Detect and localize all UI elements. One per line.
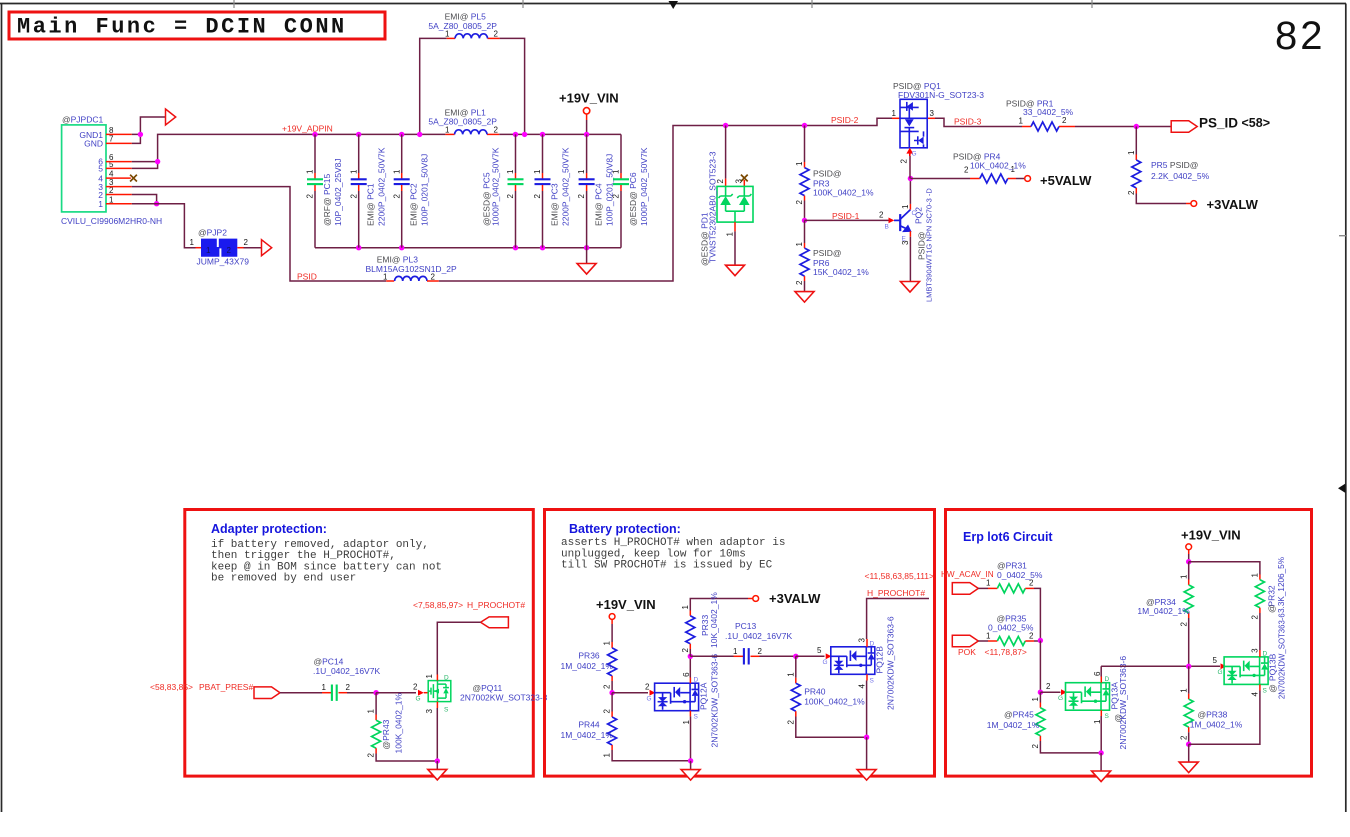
svg-text:S: S [1105, 713, 1110, 720]
inductor PL3 pin2 stub [427, 280, 439, 282]
svg-text:PS_ID: PS_ID [1199, 116, 1238, 131]
svg-text:+19V_ADPIN: +19V_ADPIN [282, 123, 333, 133]
junction dots on +19V rail [312, 132, 317, 137]
junction PC14/PR43 [373, 690, 378, 695]
svg-text:3: 3 [930, 109, 935, 118]
svg-text:2: 2 [577, 194, 586, 199]
svg-text:1: 1 [322, 683, 327, 692]
svg-text:asserts H_PROCHOT# when adapto: asserts H_PROCHOT# when adaptor is [561, 537, 785, 549]
svg-text:1: 1 [1019, 117, 1024, 126]
resistor PR32 [1251, 557, 1287, 650]
ground under filter caps [586, 248, 588, 263]
svg-text:H_PROCHOT#: H_PROCHOT# [467, 600, 525, 610]
svg-text:G: G [1218, 669, 1223, 676]
svg-text:1: 1 [682, 720, 691, 725]
svg-text:PC13: PC13 [735, 621, 757, 631]
svg-text:1: 1 [1093, 719, 1102, 724]
ground under PQ12B [866, 737, 868, 769]
svg-text:EMI@ PC4: EMI@ PC4 [594, 183, 604, 226]
svg-text:PQ12B: PQ12B [875, 646, 885, 674]
resistor PR4 [910, 151, 1030, 183]
resistor PR35 [978, 613, 1040, 645]
connector pin names [79, 130, 103, 209]
svg-text:2: 2 [795, 280, 804, 285]
svg-text:3: 3 [1251, 648, 1260, 653]
svg-text:if battery removed, adaptor on: if battery removed, adaptor only, [211, 539, 429, 551]
svg-text:POK: POK [958, 647, 976, 657]
junction POK/PR31 [1038, 638, 1043, 643]
off-page arrow jumper [262, 240, 272, 256]
svg-text:@PR43: @PR43 [381, 719, 391, 749]
border zone marker arrow right [1338, 484, 1346, 494]
resistor PR44 [561, 693, 691, 761]
resistor PR1 [1006, 98, 1075, 131]
sheet top border [0, 3, 1346, 5]
svg-text:2.2K_0402_5%: 2.2K_0402_5% [1151, 171, 1210, 181]
inductor PL5 [455, 34, 487, 39]
svg-text:G: G [823, 659, 828, 666]
svg-text:2: 2 [900, 159, 909, 164]
wire PR1 to PS_ID port [1075, 126, 1171, 128]
svg-text:PQ2: PQ2 [914, 207, 924, 224]
resistor PR45 [987, 692, 1101, 753]
wire PL3 to PSID-2 riser [439, 118, 892, 281]
svg-text:PR36: PR36 [578, 651, 600, 661]
svg-text:@PR31: @PR31 [997, 561, 1027, 571]
port PS_ID [1171, 121, 1197, 133]
svg-text:Erp lot6 Circuit: Erp lot6 Circuit [963, 530, 1053, 544]
no-connect X on pin 4 [130, 175, 137, 182]
svg-text:2: 2 [227, 246, 232, 255]
svg-text:0_0402_5%: 0_0402_5% [988, 623, 1034, 633]
wire pins 7,8 to off-page arrow [132, 117, 166, 143]
svg-text:<11,78,87>: <11,78,87> [985, 647, 1027, 657]
svg-text:10K_0402_1%: 10K_0402_1% [970, 160, 1026, 170]
title box [9, 12, 385, 39]
junction dots on bottom rail [356, 245, 361, 250]
resistor PR34 [1137, 562, 1193, 667]
capacitor PC2 [392, 134, 429, 247]
capacitor PC3 [533, 134, 570, 247]
svg-text:100K_0402_1%: 100K_0402_1% [394, 693, 404, 754]
svg-text:1: 1 [392, 169, 401, 174]
svg-text:be removed by end user: be removed by end user [211, 573, 356, 585]
svg-text:6: 6 [682, 672, 691, 677]
capacitor PC5 [482, 134, 524, 247]
svg-text:PQ12A: PQ12A [699, 682, 709, 710]
svg-text:2N7002KDW_SOT363-6: 2N7002KDW_SOT363-6 [1278, 613, 1287, 699]
svg-text:2: 2 [1179, 622, 1188, 627]
junction pin6 [155, 159, 160, 164]
svg-text:1: 1 [901, 204, 910, 209]
svg-text:2200P_0402_50V7K: 2200P_0402_50V7K [377, 147, 387, 226]
inductor PL1 [455, 130, 487, 135]
wire jumper to off-page arrow [244, 247, 262, 249]
svg-text:2: 2 [1046, 682, 1051, 691]
svg-text:1: 1 [577, 169, 586, 174]
svg-text:PR5 PSID@: PR5 PSID@ [1151, 160, 1198, 170]
resistor PR33 [681, 592, 759, 657]
svg-text:3: 3 [425, 709, 434, 714]
svg-text:2N7002KW_SOT323-3: 2N7002KW_SOT323-3 [460, 692, 548, 702]
note text battery [561, 537, 785, 572]
note text adapter [211, 539, 442, 585]
svg-text:1: 1 [1127, 150, 1136, 155]
jumper PJP2 pin1 stub [196, 247, 202, 249]
port HW_ACAV_IN [952, 583, 978, 595]
svg-text:1: 1 [986, 579, 991, 588]
svg-text:1: 1 [206, 246, 211, 255]
wire PQ12A drain to PC13 [690, 655, 733, 657]
svg-text:1M_0402_1%: 1M_0402_1% [561, 661, 614, 671]
svg-text:.1U_0402_16V7K: .1U_0402_16V7K [725, 631, 792, 641]
svg-text:5A_Z80_0805_2P: 5A_Z80_0805_2P [428, 117, 497, 127]
svg-text:S: S [870, 677, 875, 684]
border zone ticks top [233, 0, 235, 8]
svg-text:PSID@: PSID@ [813, 169, 841, 179]
svg-text:S: S [694, 714, 699, 721]
junction PR34/PQ13B gate wire [1186, 664, 1191, 669]
red frame box Battery protection [545, 510, 935, 777]
junction PC13/PR40 [793, 654, 798, 659]
junction PQ11 source / PR43 [435, 758, 440, 763]
svg-text:@ESD@ PC6: @ESD@ PC6 [628, 172, 638, 226]
port H_PROCHOT# (box1) [481, 617, 509, 628]
svg-text:PQ13B: PQ13B [1268, 653, 1278, 681]
inductor PL1 pin stubs [445, 133, 454, 135]
resistor PR31 [978, 561, 1043, 641]
svg-text:3: 3 [857, 638, 866, 643]
svg-text:2N7002KDW_SOT363-6: 2N7002KDW_SOT363-6 [710, 654, 720, 748]
svg-text:1: 1 [1031, 697, 1040, 702]
svg-text:TVNST52302AB0_SOT523-3: TVNST52302AB0_SOT523-3 [707, 151, 717, 263]
svg-text:1: 1 [1251, 573, 1260, 578]
MOSFET PQ1 [892, 81, 985, 179]
svg-text:E: E [902, 236, 907, 243]
wire to PQ12B gate [796, 655, 825, 657]
red frame box Adapter protection [185, 510, 534, 777]
svg-text:PR40: PR40 [804, 686, 826, 696]
svg-text:unplugged, keep low for 10ms: unplugged, keep low for 10ms [561, 548, 746, 560]
svg-text:then trigger the H_PROCHOT#,: then trigger the H_PROCHOT#, [211, 550, 396, 562]
svg-text:2200P_0402_50V7K: 2200P_0402_50V7K [561, 147, 571, 226]
capacitor PC13 [725, 621, 796, 665]
capacitor PC4 [577, 134, 614, 247]
TVS diode PD1 [700, 126, 754, 276]
svg-text:2: 2 [716, 179, 725, 184]
svg-text:3.3K_1206_5%: 3.3K_1206_5% [1277, 557, 1286, 613]
junction PR3 tap [802, 123, 807, 128]
svg-text:PBAT_PRES#: PBAT_PRES# [199, 682, 253, 692]
svg-text:D: D [444, 675, 449, 682]
svg-text:2: 2 [964, 166, 969, 175]
svg-text:D: D [694, 677, 699, 684]
svg-text:GND: GND [84, 139, 103, 149]
svg-text:@PR38: @PR38 [1198, 710, 1228, 720]
svg-text:S: S [444, 707, 449, 714]
svg-text:Main Func = DCIN CONN: Main Func = DCIN CONN [17, 15, 347, 40]
svg-text:2: 2 [392, 194, 401, 199]
svg-text:.1U_0402_16V7K: .1U_0402_16V7K [313, 666, 380, 676]
svg-text:2: 2 [1062, 116, 1067, 125]
junction PQ12A drain node [688, 654, 693, 659]
svg-text:1M_0402_1%: 1M_0402_1% [987, 720, 1040, 730]
transistor PQ2 [879, 179, 934, 303]
svg-text:1: 1 [892, 109, 897, 118]
svg-text:G: G [912, 151, 917, 158]
svg-text:@: @ [1267, 604, 1277, 613]
svg-text:D: D [1105, 676, 1110, 683]
wire PQ13A drain to PQ13B gate [1101, 665, 1220, 667]
svg-text:@PJPDC1: @PJPDC1 [62, 115, 104, 125]
capacitor PC6 [612, 134, 649, 247]
border zone marker arrow top [669, 1, 679, 9]
dual MOSFET PQ13B [1189, 613, 1287, 744]
svg-text:1: 1 [190, 238, 195, 247]
junction PR36/PR44 gate node [609, 690, 614, 695]
svg-text:EMI@ PC3: EMI@ PC3 [550, 183, 560, 226]
junction gate node PQ13A [1038, 690, 1043, 695]
svg-text:<11,58,63,85,111>: <11,58,63,85,111> [865, 571, 935, 581]
svg-text:10K_0402_1%: 10K_0402_1% [709, 592, 719, 648]
svg-text:1: 1 [349, 169, 358, 174]
svg-text:1: 1 [445, 30, 450, 39]
svg-text:Battery protection:: Battery protection: [569, 522, 681, 536]
resistor PR40 [786, 656, 866, 737]
svg-text:1: 1 [726, 232, 735, 237]
svg-text:EMI@ PC1: EMI@ PC1 [366, 183, 376, 226]
svg-text:+19V_VIN: +19V_VIN [559, 90, 619, 105]
svg-text:@PR45: @PR45 [1004, 710, 1034, 720]
svg-text:FDV301N-G_SOT23-3: FDV301N-G_SOT23-3 [898, 90, 984, 100]
svg-text:2: 2 [612, 194, 621, 199]
svg-text:6: 6 [1093, 671, 1102, 676]
ground under PQ12A [690, 761, 692, 769]
svg-text:2: 2 [431, 272, 436, 281]
svg-text:2: 2 [349, 194, 358, 199]
svg-text:PSID@: PSID@ [813, 248, 841, 258]
svg-text:2: 2 [879, 211, 884, 220]
capacitor PC14 [313, 657, 380, 701]
svg-text:1: 1 [681, 605, 690, 610]
svg-text:PSID: PSID [297, 272, 317, 282]
svg-text:2: 2 [533, 194, 542, 199]
dual MOSFET PQ12B [831, 616, 896, 737]
svg-text:1: 1 [786, 672, 795, 677]
port POK [952, 635, 978, 647]
resistor PR43 [367, 693, 438, 761]
inductor PL3 pin1 stub [386, 280, 394, 282]
svg-text:2: 2 [244, 238, 249, 247]
svg-text:PSID-1: PSID-1 [832, 211, 860, 221]
power symbol +19V_VIN [583, 108, 589, 114]
svg-text:1000P_0402_50V7K: 1000P_0402_50V7K [491, 147, 501, 226]
wire PSID-3 [935, 118, 1022, 126]
svg-text:1: 1 [795, 161, 804, 166]
inductor PL5 pin stubs [447, 37, 455, 39]
wire to PQ13A gate [1040, 691, 1060, 693]
svg-text:1: 1 [367, 709, 376, 714]
svg-text:1: 1 [383, 272, 388, 281]
svg-text:PR32: PR32 [1267, 585, 1277, 607]
svg-text:1M_0402_1%: 1M_0402_1% [1190, 720, 1243, 730]
svg-text:1: 1 [98, 199, 103, 209]
svg-text:100K_0402_1%: 100K_0402_1% [804, 696, 865, 706]
svg-text:+3VALW: +3VALW [1207, 197, 1259, 212]
svg-text:1: 1 [733, 647, 738, 656]
svg-text:1M_0402_1%: 1M_0402_1% [561, 730, 614, 740]
svg-text:100P_0201_50V8J: 100P_0201_50V8J [605, 154, 615, 226]
svg-text:2: 2 [1251, 615, 1260, 620]
off-page arrow top [166, 109, 176, 125]
wire down to gate node [1039, 641, 1041, 693]
svg-text:1: 1 [445, 126, 450, 135]
svg-text:G: G [1058, 695, 1063, 702]
svg-text:+19V_VIN: +19V_VIN [1181, 528, 1241, 543]
svg-text:JUMP_43X79: JUMP_43X79 [197, 257, 250, 267]
red frame box Erp lot6 Circuit [946, 510, 1312, 777]
svg-text:2: 2 [346, 683, 351, 692]
svg-text:2: 2 [645, 683, 650, 692]
sheet right border [1345, 4, 1347, 813]
connector PJPDC1 body [62, 125, 106, 212]
svg-text:5: 5 [817, 646, 822, 655]
junction PR5 tap [1134, 124, 1139, 129]
junction PQ12A source/PR44 [688, 758, 693, 763]
+19V ADPIN rail right of PL1 [499, 133, 621, 135]
junction PQ1 source node [908, 176, 913, 181]
dual MOSFET PQ13A [1066, 656, 1129, 753]
sheet left border [1, 4, 3, 813]
svg-text:3: 3 [735, 179, 744, 184]
junction +19V (box3) [1186, 559, 1191, 564]
svg-text:2: 2 [367, 753, 376, 758]
wire PSID-1 to PQ2 base [805, 219, 889, 221]
svg-text:1: 1 [506, 169, 515, 174]
svg-text:10P_0402_25V8J: 10P_0402_25V8J [333, 158, 343, 226]
svg-text:2: 2 [306, 194, 315, 199]
svg-text:PSID-2: PSID-2 [831, 115, 859, 125]
svg-text:1000P_0402_50V7K: 1000P_0402_50V7K [639, 147, 649, 226]
svg-text:2: 2 [1031, 744, 1040, 749]
svg-text:H_PROCHOT#: H_PROCHOT# [867, 588, 925, 598]
svg-text:2N7002KDW_SOT363-6: 2N7002KDW_SOT363-6 [886, 616, 896, 710]
svg-text:till SW PROCHOT# is issued by: till SW PROCHOT# is issued by EC [561, 560, 773, 572]
svg-text:CVILU_CI9906M2HR0-NH: CVILU_CI9906M2HR0-NH [61, 216, 162, 226]
svg-text:EMI@ PC2: EMI@ PC2 [409, 183, 419, 226]
junction PQ13A source/PR45 [1098, 750, 1103, 755]
svg-text:1: 1 [533, 169, 542, 174]
svg-text:<58,83,85>: <58,83,85> [150, 682, 193, 692]
svg-text:BLM15AG102SN1D_2P: BLM15AG102SN1D_2P [366, 264, 458, 274]
svg-text:0_0402_5%: 0_0402_5% [997, 570, 1043, 580]
svg-text:+19V_VIN: +19V_VIN [596, 597, 656, 612]
svg-text:1: 1 [1179, 574, 1188, 579]
svg-text:2: 2 [603, 684, 612, 689]
MOSFET PQ11 [413, 674, 548, 762]
wire pin1 to jumper PJP2 [132, 204, 196, 248]
jumper pin2 stub [237, 247, 243, 249]
svg-text:5A_Z80_0805_2P: 5A_Z80_0805_2P [428, 21, 497, 31]
wire port to PQ11 drain [437, 622, 480, 674]
jumper PJP2 body [201, 239, 237, 257]
svg-text:2: 2 [506, 194, 515, 199]
svg-text:LMBT3904WT1G NPN SC70-3 -D: LMBT3904WT1G NPN SC70-3 -D [925, 188, 934, 302]
svg-text:15K_0402_1%: 15K_0402_1% [813, 267, 869, 277]
junction pin1/pin2 [154, 201, 159, 206]
inductor PL3 [395, 276, 427, 281]
wire to PQ12A gate [612, 692, 648, 694]
svg-text:@RF@ PC15: @RF@ PC15 [322, 174, 332, 226]
svg-text:2: 2 [681, 648, 690, 653]
junction PD1 tap [723, 123, 728, 128]
svg-text:100P_0201_50V8J: 100P_0201_50V8J [420, 154, 430, 226]
junction PSID-1 [802, 218, 807, 223]
svg-text:2: 2 [786, 720, 795, 725]
ground box1 [436, 761, 438, 769]
svg-text:<7,58,85,97>: <7,58,85,97> [413, 600, 463, 610]
svg-text:2: 2 [494, 126, 499, 135]
svg-text:5: 5 [1213, 656, 1218, 665]
svg-text:2: 2 [413, 683, 418, 692]
junction pin8 [138, 132, 143, 137]
junction PQ12B source/PR40 [864, 735, 869, 740]
svg-text:2: 2 [1179, 735, 1188, 740]
svg-text:<58>: <58> [1242, 116, 1271, 130]
svg-text:PR44: PR44 [578, 720, 600, 730]
svg-text:2: 2 [494, 30, 499, 39]
svg-text:2: 2 [1029, 632, 1034, 641]
svg-text:5: 5 [98, 164, 103, 174]
svg-text:1M_0402_1%: 1M_0402_1% [1137, 606, 1190, 616]
port PBAT_PRES# [254, 687, 280, 699]
svg-text:PSID-3: PSID-3 [954, 117, 982, 127]
svg-text:1: 1 [603, 641, 612, 646]
ground under PR38 [1188, 744, 1190, 762]
svg-text:1: 1 [795, 242, 804, 247]
resistor PR36 [561, 641, 617, 693]
svg-text:G: G [647, 696, 652, 703]
svg-text:1: 1 [306, 169, 315, 174]
wire pin3 to PSID [132, 187, 386, 281]
svg-text:82: 82 [1275, 14, 1326, 58]
resistor PR6 [795, 220, 869, 302]
wire H_PROCHOT# (box2) [867, 599, 929, 640]
svg-text:B: B [885, 224, 889, 231]
svg-text:1: 1 [603, 753, 612, 758]
wire junction to PQ11 gate [376, 692, 416, 694]
svg-text:G: G [416, 696, 421, 703]
svg-text:7: 7 [109, 135, 114, 144]
svg-text:4: 4 [1251, 692, 1260, 697]
svg-text:1: 1 [612, 169, 621, 174]
svg-text:33_0402_5%: 33_0402_5% [1023, 107, 1074, 117]
dual MOSFET PQ12A [655, 654, 720, 761]
svg-text:2: 2 [603, 709, 612, 714]
bottom ground rail of filter caps [315, 247, 621, 249]
svg-text:1: 1 [986, 632, 991, 641]
svg-text:100K_0402_1%: 100K_0402_1% [813, 188, 874, 198]
svg-text:2: 2 [795, 200, 804, 205]
wire pins 5,6 to +19V_ADPIN rail [132, 134, 446, 168]
ground under PQ13A [1100, 753, 1102, 771]
connector pin numbers [109, 126, 114, 204]
svg-text:+3VALW: +3VALW [769, 591, 821, 606]
capacitor PC15 [306, 134, 343, 247]
wire PL5 parallel branch [420, 38, 525, 134]
svg-text:+5VALW: +5VALW [1040, 173, 1092, 188]
svg-text:keep @ in BOM since battery ca: keep @ in BOM since battery can not [211, 561, 442, 573]
